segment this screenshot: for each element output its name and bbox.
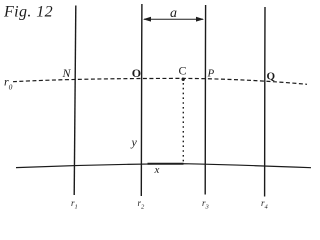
svg-text:r1: r1 — [71, 198, 78, 211]
svg-text:Q: Q — [267, 71, 276, 83]
svg-text:O: O — [132, 66, 141, 80]
bold x segment — [148, 163, 184, 165]
line r2 — [140, 4, 143, 196]
line r3 — [204, 5, 206, 195]
svg-text:C: C — [179, 64, 187, 78]
svg-text:x: x — [154, 164, 160, 176]
svg-text:Fig. 12: Fig. 12 — [3, 4, 53, 21]
svg-text:N: N — [62, 66, 72, 80]
dimension arrow a between r2 and r3 — [143, 17, 204, 22]
svg-text:r0: r0 — [4, 74, 13, 91]
line r1 — [74, 6, 76, 196]
svg-text:r3: r3 — [202, 198, 210, 211]
svg-text:P: P — [207, 68, 215, 80]
dashed curve r0 — [13, 78, 307, 84]
solid bottom curve (x axis) — [16, 164, 311, 168]
point C dot — [182, 78, 185, 81]
svg-text:y: y — [131, 135, 138, 149]
svg-text:r4: r4 — [261, 198, 269, 211]
dotted vertical from C to axis — [182, 83, 184, 163]
svg-text:a: a — [170, 6, 177, 21]
svg-text:r2: r2 — [138, 198, 146, 211]
line r4 — [264, 7, 266, 197]
